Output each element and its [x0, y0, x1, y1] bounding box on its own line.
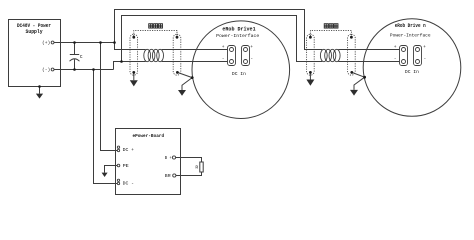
- cable2 shield top dashed link: [310, 30, 351, 36]
- cable1 right shield capsule: [173, 34, 181, 75]
- svg-text:+: +: [394, 45, 397, 50]
- svg-text:DC In: DC In: [405, 69, 419, 75]
- ground cable1 shield: [130, 80, 138, 86]
- board DC- terminal circles: [117, 179, 119, 181]
- wire BR to resistor R: [176, 172, 202, 176]
- ground PE: [102, 173, 108, 177]
- svg-text:(-): (-): [42, 67, 50, 73]
- wire PE to ground: [105, 166, 118, 173]
- wire - from PS terminal to step: [54, 69, 114, 71]
- ground stem below cable2 left shield capsule: [309, 72, 311, 79]
- cable2 shield bond to drive n housing: [352, 72, 365, 77]
- wire top inner bus -: [122, 16, 323, 62]
- svg-text:-: -: [250, 57, 253, 62]
- cable2 shield bottom-left dot: [309, 71, 312, 74]
- label shield cable2: [324, 24, 338, 28]
- drive n connector block right: [414, 46, 422, 66]
- drive 1 housing circle: [192, 21, 290, 119]
- node PS ground: [38, 85, 41, 88]
- cable1 shield bond to drive1 housing: [177, 72, 192, 77]
- ground drive1 housing: [178, 90, 186, 96]
- cable 1 shield dashed capsules and shield line: [130, 30, 355, 75]
- svg-text:B +: B +: [165, 155, 172, 161]
- svg-text:Supply: Supply: [26, 29, 44, 35]
- ground cable2 shield: [306, 80, 314, 86]
- ground arrows: [36, 80, 358, 178]
- cable1 shield top-left dot: [132, 36, 135, 39]
- board DC+ terminal circles: [117, 146, 119, 148]
- node capacitor bottom: [73, 68, 76, 71]
- cable2 left shield capsule: [307, 34, 315, 75]
- svg-text:R: R: [195, 164, 198, 170]
- svg-text:ePower-Board: ePower-Board: [133, 133, 165, 139]
- node A outer bus junction: [113, 41, 116, 44]
- wire DC- drop to ePower-Board: [94, 70, 118, 184]
- drive n pin 1 +: [402, 48, 406, 52]
- cable1 housing ground wire: [182, 78, 192, 90]
- cable1 housing bond dot: [191, 76, 194, 79]
- ePower-Board box: [116, 129, 181, 195]
- label shield cable1: [149, 24, 163, 28]
- cable1 shield top-right dot: [176, 36, 179, 39]
- drive n pin 2 -: [402, 60, 406, 64]
- cable2 housing ground wire: [354, 77, 365, 90]
- cable1 shield bottom-left dot: [132, 71, 135, 74]
- cable2 shield top-right dot: [350, 36, 353, 39]
- PS terminal (+) circle: [51, 41, 54, 44]
- svg-text:Power-Interface: Power-Interface: [216, 33, 259, 39]
- svg-text:Power-Interface: Power-Interface: [390, 33, 431, 39]
- cable2 shield bottom-right dot: [350, 71, 353, 74]
- svg-text:-: -: [424, 57, 427, 62]
- drive n housing circle: [363, 19, 461, 117]
- ground stem below cable1 left shield capsule: [133, 72, 135, 80]
- svg-text:DC -: DC -: [123, 181, 135, 187]
- drive1 pin 4: [244, 60, 248, 64]
- drive n pin 4: [416, 60, 420, 64]
- capacitor C1 wires: [74, 43, 76, 55]
- cable2 right shield capsule: [348, 34, 356, 75]
- wire B+ to resistor R: [176, 158, 202, 163]
- junction dots: [38, 36, 366, 88]
- svg-text:+: +: [423, 45, 426, 50]
- capacitor C1 curved plate: [70, 59, 80, 61]
- drive n connector block left: [400, 46, 408, 66]
- wire + step down into cable 1: [115, 43, 146, 50]
- svg-text:PE: PE: [123, 163, 129, 169]
- cable1 left shield capsule: [130, 34, 138, 75]
- drive n pin 3: [416, 48, 420, 52]
- ground drive n housing: [350, 90, 358, 96]
- power supply box U-PS: [9, 20, 61, 87]
- board PE terminal circle: [117, 164, 120, 167]
- node B inner bus junction: [120, 60, 123, 63]
- cable2 twisted pair coil: [320, 49, 340, 61]
- terminal circles: [51, 41, 176, 185]
- node DC- tap: [92, 68, 95, 71]
- svg-text:+: +: [222, 45, 225, 50]
- capacitor C1 top plate: [70, 54, 79, 56]
- cable2 housing bond dot: [363, 76, 366, 79]
- drive1 pin 1 +: [230, 48, 234, 52]
- cable1 twisted pair coil: [144, 49, 164, 61]
- svg-text:BR: BR: [165, 173, 171, 179]
- node capacitor top: [73, 41, 76, 44]
- svg-text:C: C: [80, 54, 83, 60]
- ground stem below power supply: [39, 87, 41, 94]
- cable2 shield top-left dot: [309, 36, 312, 39]
- svg-text:-: -: [394, 57, 397, 62]
- drive1 connector block left: [228, 46, 422, 66]
- svg-text:eRob Drive n: eRob Drive n: [395, 23, 426, 29]
- svg-text:+: +: [250, 45, 253, 50]
- PS terminal (-) circle: [51, 68, 54, 71]
- cable1 shield top dashed link: [134, 30, 177, 36]
- svg-text:eRob Drive1: eRob Drive1: [222, 26, 255, 32]
- resistor R body: [200, 162, 203, 172]
- svg-text:DC In: DC In: [232, 71, 246, 77]
- svg-text:DC +: DC +: [123, 147, 135, 153]
- board BR terminal circle: [173, 174, 176, 177]
- cable1 shield bottom-right dot: [176, 71, 179, 74]
- ground PS: [36, 94, 43, 99]
- wire - step up into cable 1: [114, 62, 146, 70]
- svg-text:(+): (+): [42, 40, 50, 46]
- board B+ terminal circle: [172, 156, 175, 159]
- wire DC+ drop to ePower-Board: [101, 43, 118, 151]
- wire + from PS terminal to node A: [54, 42, 115, 44]
- drive1 pin 2 -: [230, 60, 234, 64]
- node DC+ tap: [99, 41, 102, 44]
- drive1 pin 3: [244, 48, 248, 52]
- wire top outer bus +: [115, 10, 323, 50]
- drive1 connector block right: [242, 46, 250, 66]
- svg-text:-: -: [222, 57, 225, 62]
